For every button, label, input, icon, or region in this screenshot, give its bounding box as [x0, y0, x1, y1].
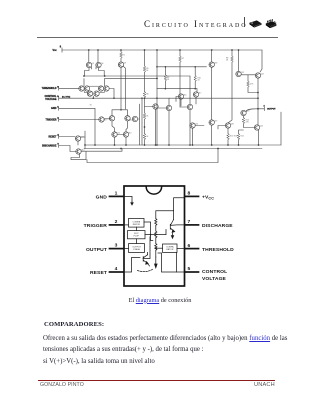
junction at 104.7,76: [104, 75, 106, 77]
wire R16 tap: [239, 130, 244, 134]
wire Q15 down: [155, 109, 157, 145]
transistor Q19: [209, 120, 214, 125]
wire Q14 emitter loop: [71, 152, 86, 160]
wire mirror bus to flip-flop: [84, 75, 190, 77]
junction bus 238.5: [238, 144, 240, 146]
transistor Q15c: [193, 92, 198, 97]
CONTROL VOLTAGE pin 5: [58, 96, 60, 100]
wire lower mirror link: [105, 77, 157, 79]
junction at 258,98.2: [257, 97, 259, 99]
junction at 157,66.8: [156, 66, 158, 68]
transistor Q1: [79, 86, 84, 91]
wire threshold to Q1 base: [59, 87, 79, 89]
wire Q23 collector hook: [246, 109, 257, 112]
svg-text:5: 5: [188, 266, 191, 272]
resistor R10b: [194, 75, 197, 81]
pin name labels: [42, 88, 57, 147]
transistor Q5: [86, 62, 91, 67]
junction dot trigger ref: [150, 234, 152, 236]
svg-text:RATOR: RATOR: [166, 248, 174, 251]
junction bus 228: [227, 144, 229, 146]
transistor Q20: [190, 123, 195, 128]
wire R8 down: [228, 62, 232, 123]
wire Q9 to trigger pair: [120, 67, 122, 110]
svg-text:COMPA: COMPA: [166, 246, 174, 249]
divider resistor Rb: [155, 231, 157, 238]
wire cluster to control line: [92, 96, 94, 98]
line a): [43, 358, 155, 365]
wire R16 to bus: [238, 140, 240, 145]
TRIGGER pin 2: [58, 118, 60, 122]
wire Q18 base feed: [157, 66, 207, 68]
junction bus 126: [125, 144, 127, 146]
ground arrow at pin1: [131, 202, 133, 206]
wire Q14 collector line: [81, 149, 122, 152]
wire Q16 base: [157, 107, 166, 109]
transistor Q10: [109, 116, 114, 121]
wire CMP2 to pin5 net: [176, 252, 178, 272]
transistor Q24: [254, 125, 259, 130]
wire pin1 to ground arrow: [124, 196, 132, 201]
junction at 121,110.2: [120, 109, 122, 111]
wire rail corner to Q22: [260, 50, 262, 72]
wire Q15c down: [195, 97, 197, 104]
junction bus 144.5: [144, 144, 146, 146]
transistor Q4a: [94, 91, 99, 96]
resistor R6: [143, 92, 146, 98]
wire Rc bottom to ground: [155, 250, 157, 257]
GND pin 1: [58, 107, 60, 111]
transistor Q11a input: [132, 116, 137, 121]
wire column 139.5: [139, 104, 141, 145]
header separator bar: [244, 17, 245, 27]
transistor Q25: [75, 136, 80, 141]
junction at 157,78.4: [156, 78, 158, 80]
wire Q20 emitter: [192, 128, 194, 145]
divider resistor Ra: [155, 219, 157, 226]
svg-text:FLIP: FLIP: [134, 233, 139, 235]
wire base node to R10: [247, 75, 249, 81]
wire divider top to Vcc pin8: [156, 198, 184, 219]
wire FF to output stage: [136, 239, 138, 244]
svg-text:TRIGGER: TRIGGER: [84, 223, 108, 229]
svg-text:CONTROL: CONTROL: [202, 269, 227, 275]
junction at 165.4,66.8: [165, 66, 167, 68]
resistor R12: [227, 134, 230, 140]
junction bus 151: [155, 144, 157, 146]
comparator block CMP2: [163, 244, 178, 252]
svg-text:+VCC: +VCC: [202, 194, 214, 200]
junction rail 88.8: [88, 49, 90, 51]
RESET pin 4: [58, 135, 60, 139]
wire Q20 base: [195, 125, 204, 127]
junction rail 180: [179, 49, 181, 51]
svg-text:FLOP: FLOP: [134, 236, 140, 238]
wire Q5 emitter to rail: [88, 50, 90, 63]
svg-text:RESET: RESET: [90, 270, 107, 276]
wire pin6 to CMP2: [177, 248, 184, 250]
transistor Q11: [125, 116, 130, 121]
DISCHARGE pin 7: [58, 144, 60, 148]
svg-text:3: 3: [115, 243, 118, 249]
transistor Q3a: [87, 91, 92, 96]
wire Q25 vertical: [84, 131, 86, 149]
svg-text:VOLTAGE: VOLTAGE: [202, 276, 227, 282]
svg-text:2: 2: [115, 219, 118, 225]
junction bus 190: [189, 144, 191, 146]
wire pin7 to Q1 base: [170, 224, 184, 226]
wire Vcc rail: [62, 49, 262, 51]
OUTPUT pin 3: [263, 107, 265, 111]
wire Q15c collector up: [196, 89, 198, 92]
wire Q2 base to CV: [109, 89, 114, 99]
junction at 157,98.2: [156, 97, 158, 99]
wire Q5/Q6 cross-couple: [85, 67, 105, 76]
resistor R9: [164, 75, 167, 81]
junction bus 169: [168, 144, 170, 146]
header chip icon 1: [249, 20, 262, 28]
wire Q11 collector down: [126, 121, 128, 132]
component value labels: [79, 55, 264, 152]
junction at 165.4,88.7: [165, 88, 167, 90]
junction rail 232: [231, 49, 233, 51]
IC U1 DIP-8 body: [124, 186, 185, 286]
pin 3 lead: [110, 248, 124, 250]
pin 4 lead: [110, 271, 124, 273]
wire FF to discharge transistor base: [145, 230, 166, 235]
wire Q6 emitter to rail: [97, 50, 99, 63]
comparator block CMP1: [129, 219, 145, 228]
junction bus 121: [120, 148, 122, 150]
svg-text:6: 6: [188, 243, 191, 249]
pin 8 lead: [185, 195, 198, 197]
wire R7 down: [179, 62, 181, 107]
transistor Q9: [118, 62, 123, 67]
junction output node: [257, 108, 259, 110]
wire column 142: [141, 98, 143, 145]
wire Q20b emitter to R12: [227, 128, 229, 133]
transistor Q2: [84, 86, 89, 91]
wire output node to pin: [258, 108, 264, 110]
ground arrow below Q1: [171, 233, 173, 238]
Vcc pin 8: [61, 48, 63, 52]
wire trigger to Q10 base: [59, 119, 99, 121]
footer left: [40, 382, 84, 388]
wire Q15 base: [145, 106, 153, 108]
junction at 144.5,127: [144, 126, 146, 128]
wire Rb-Rc: [155, 238, 157, 244]
wire bottom bus A: [85, 144, 281, 146]
svg-text:1: 1: [115, 190, 118, 196]
transistor Q13: [123, 132, 128, 137]
wire column 157: [156, 50, 158, 145]
resistor R8 column: [231, 50, 233, 56]
wire Q19 emitter: [211, 125, 213, 145]
wire CMP2 to divider tap: [156, 247, 163, 249]
wire discharge to Q14: [59, 146, 75, 152]
junction at 142,98.2: [141, 97, 143, 99]
wire R5 down: [144, 72, 146, 91]
wire R1 to Q9: [120, 58, 122, 62]
wire Q22 emitter to output node: [257, 78, 259, 125]
junction at 114,97.5: [113, 97, 115, 99]
wire R12 to bus: [227, 140, 229, 145]
svg-text:THRESHOLD: THRESHOLD: [202, 247, 234, 253]
transistor Q22: [255, 73, 260, 78]
flip-flop block FF: [128, 231, 146, 239]
header title: [144, 19, 248, 29]
svg-text:4: 4: [115, 266, 118, 272]
svg-text:OUTPUT: OUTPUT: [86, 247, 107, 253]
pin 6 lead: [185, 248, 198, 250]
output transistor Q2: [143, 255, 148, 264]
resistor R7 column: [179, 50, 181, 56]
ground arrow below divider: [155, 257, 158, 268]
wire Q25 collector right: [81, 136, 86, 138]
resistor R1 column: [120, 50, 122, 52]
wire Q23 emitter to R15: [243, 116, 245, 118]
transistor Q3: [98, 86, 103, 91]
wire bottom bus B: [84, 148, 262, 150]
wire R6 down: [144, 98, 146, 113]
paragraph: [43, 334, 295, 355]
wire CMP1 to divider ref tap: [144, 222, 153, 241]
wire Q10 collector down: [112, 121, 115, 132]
FIGURE 2: DIP-8 pinout diagram: [0, 0, 320, 296]
transistor Q18: [209, 62, 214, 67]
footer right: [254, 382, 275, 388]
pin 2 lead: [110, 224, 124, 226]
transistor Q23: [241, 110, 246, 115]
wire R9 top: [164, 67, 166, 75]
junction dot divider tap CMP2: [155, 247, 157, 249]
svg-text:STAGE: STAGE: [133, 248, 141, 251]
resistor R15: [242, 118, 245, 124]
resistor R8b divider: [143, 134, 146, 140]
wire CMP1 to flip-flop: [136, 227, 138, 231]
wire Q16 down: [168, 111, 170, 145]
junction rail 157: [156, 49, 158, 51]
header chip icon 2: [265, 19, 277, 29]
THRESHOLD pin 6: [58, 86, 60, 90]
wire Q25 emitter: [77, 141, 79, 145]
wire Q17 down: [189, 110, 191, 145]
wire OUT block to pin3: [124, 248, 129, 250]
resistor R10: [247, 81, 250, 87]
wire divider to bus: [144, 140, 146, 145]
junction rail 211.7: [211, 49, 213, 51]
svg-text:GND: GND: [96, 195, 108, 201]
svg-text:7: 7: [188, 219, 191, 225]
wire pin4 up to output transistor: [124, 258, 140, 273]
wire Q12/Q13 bases: [117, 134, 123, 136]
pin 5 lead: [185, 271, 198, 273]
wire Q2 collector to OUT block: [147, 252, 149, 254]
wire Q17 base: [180, 106, 187, 108]
wire Q21 emitter to rail: [238, 50, 240, 72]
wire Q12 emitter: [114, 137, 116, 145]
FIGURE 1: 555 internal schematic: [0, 0, 320, 180]
transistor Q12: [112, 132, 117, 137]
divider resistor Rc: [155, 244, 157, 251]
wire gnd to bottom bus: [59, 108, 95, 145]
wire Q15b down: [180, 99, 182, 106]
junction at 258,92.5: [257, 92, 259, 94]
junction at 84,76: [83, 75, 85, 77]
wire Vcc branch to discharge transistor: [173, 211, 175, 220]
junction bus 192.5: [192, 144, 194, 146]
junction rail 238.5: [238, 49, 240, 51]
wire R10b top: [194, 67, 196, 76]
wire R9 bottom: [164, 81, 166, 89]
wire R10b bottom: [194, 82, 196, 89]
wire right edge vertical: [280, 112, 282, 145]
pin 7 lead: [185, 224, 198, 226]
junction bus 85: [84, 144, 86, 146]
transistor Q14: [76, 149, 81, 154]
transistor Q10a input: [99, 117, 104, 122]
junction bus 112: [114, 144, 116, 146]
wire Q18 down: [211, 67, 213, 120]
transistor Q15: [153, 104, 158, 109]
junction bus 258.5: [258, 144, 260, 146]
wire Q21/Q22 bases: [241, 74, 255, 76]
wire Ra-Rb: [155, 225, 157, 231]
wire Q24 emitter to bus: [258, 130, 260, 145]
svg-text:8: 8: [188, 191, 191, 197]
junction at 195.2,88.7: [194, 88, 196, 90]
wire Q11a base right: [138, 118, 140, 120]
junction bus 157: [156, 144, 158, 146]
resistor R7b divider: [143, 113, 146, 119]
wire Q13 emitter: [125, 137, 127, 145]
wire Q2 emitter down: [148, 263, 150, 266]
junction bus 211.7: [211, 144, 213, 146]
junction busB 218: [217, 148, 219, 150]
wire Q20b base: [218, 126, 225, 130]
discharge transistor Q1: [170, 220, 174, 233]
wire R15 to Q24 base: [244, 124, 254, 128]
resistor R16: [237, 134, 240, 140]
transistor Q20b: [225, 123, 230, 128]
transistor Q17: [187, 104, 192, 109]
wire reset to Q25 base: [59, 136, 75, 138]
output stage block OUT: [129, 244, 145, 253]
wire pin5 to divider tap: [158, 253, 184, 272]
heading COMPARADORES: [44, 321, 104, 328]
wire Q9 second emitter: [123, 66, 125, 109]
header rule: [37, 37, 278, 38]
caption: [0, 297, 320, 304]
wire Q16 collector up: [168, 98, 170, 105]
wire Q17 collector up: [189, 76, 191, 104]
wire Q15b base loop: [176, 97, 178, 102]
transistor Q21: [236, 71, 241, 76]
junction bus 95: [94, 144, 96, 146]
wire cluster interlinks: [84, 86, 104, 92]
wire FF to output transistor Q2 base: [143, 237, 150, 259]
wire bottom return: [87, 149, 218, 163]
U1 orientation notch: [146, 187, 161, 194]
dashed curve below Q2: [138, 269, 154, 272]
transistor Q16: [166, 105, 171, 110]
pin 1 lead: [110, 195, 124, 197]
resistor R5 column: [144, 50, 146, 66]
junction at 93.3,97.5: [92, 97, 94, 99]
transistor Q4: [104, 86, 109, 91]
junction at 195.2,66.8: [194, 66, 196, 68]
wire column 211.7: [211, 50, 213, 62]
wire divider mid: [144, 119, 146, 133]
wire R10 down to Q23: [248, 87, 258, 92]
wire cluster emitters up: [84, 79, 105, 87]
wire Q10/Q11 emitters: [112, 110, 128, 116]
svg-text:DISCHARGE: DISCHARGE: [202, 223, 233, 229]
junction rail 121: [120, 49, 122, 51]
junction rail 144.5: [144, 49, 146, 51]
wire control voltage line: [59, 97, 258, 99]
svg-text:RATOR: RATOR: [133, 223, 141, 226]
transistor Q6: [96, 62, 101, 67]
wire mid link: [157, 88, 197, 90]
junction at 144.5,98.2: [144, 97, 146, 99]
wire Q10a to Q10 base: [104, 118, 109, 120]
wire pin2 to CMP1: [124, 224, 129, 226]
transistor Q15b: [178, 94, 183, 99]
footer rule: [38, 380, 275, 381]
junction rail 98: [97, 49, 99, 51]
svg-text:COMPA: COMPA: [133, 220, 141, 223]
